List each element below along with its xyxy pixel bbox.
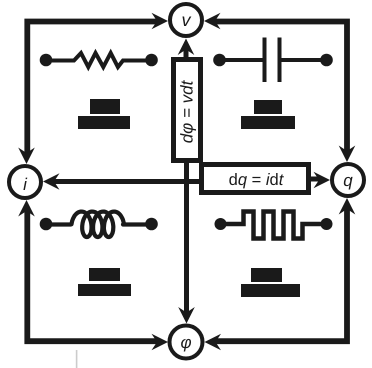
resistor terminal dot left bbox=[40, 54, 53, 67]
arrowhead into phi from top bbox=[178, 307, 195, 324]
arrowhead into phi from left bbox=[152, 334, 169, 351]
inductor label block bbox=[78, 268, 131, 296]
svg-text:v: v bbox=[182, 10, 192, 30]
arrowhead from dphi box into v bbox=[178, 39, 195, 59]
arrowhead into q from top bbox=[339, 146, 356, 163]
wire v to q (top-right L) bbox=[213, 22, 347, 155]
capacitor label block bbox=[241, 100, 295, 129]
memristor terminal dot left bbox=[215, 218, 227, 230]
svg-text:φ: φ bbox=[180, 333, 191, 352]
node i bbox=[9, 166, 41, 198]
wire center vertical to phi bbox=[184, 158, 189, 314]
arrowhead into phi from right bbox=[205, 334, 222, 351]
node v bbox=[170, 4, 202, 36]
arrowhead into i from bottom bbox=[18, 200, 35, 217]
box dphi = vdt bbox=[174, 60, 201, 161]
stray scan mark bbox=[76, 350, 78, 368]
capacitor bbox=[225, 38, 321, 83]
resistor terminal dot right bbox=[145, 54, 158, 67]
wire q to phi (bottom-right L) bbox=[214, 206, 347, 341]
inductor terminal dot left bbox=[40, 218, 53, 231]
node phi bbox=[170, 326, 203, 359]
wire i to v (top-left L) bbox=[27, 22, 159, 157]
arrowhead from dq box into q bbox=[311, 172, 330, 189]
arrowhead into v from right bbox=[204, 13, 221, 30]
capacitor terminal dot left bbox=[213, 54, 226, 67]
svg-text:q: q bbox=[343, 171, 353, 190]
memristor bbox=[226, 212, 321, 239]
memristor label block bbox=[241, 268, 300, 297]
wire center horizontal to i bbox=[51, 179, 206, 184]
arrowhead into v from left bbox=[152, 13, 169, 30]
svg-text:dq = idt: dq = idt bbox=[229, 171, 285, 189]
arrowhead into q from bottom bbox=[339, 198, 356, 215]
capacitor terminal dot right bbox=[320, 54, 333, 67]
resistor bbox=[52, 53, 146, 67]
arrowhead into i from top bbox=[18, 148, 35, 165]
box dq = idt bbox=[202, 165, 309, 193]
arrowhead into i from right bbox=[43, 173, 60, 190]
inductor bbox=[52, 212, 146, 237]
resistor label block bbox=[78, 99, 130, 129]
memristor terminal dot right bbox=[321, 218, 333, 230]
svg-text:dφ = vdt: dφ = vdt bbox=[178, 79, 197, 143]
inductor terminal dot right bbox=[145, 218, 158, 231]
wire i to phi (bottom-left L) bbox=[27, 208, 160, 341]
node q bbox=[332, 164, 364, 196]
